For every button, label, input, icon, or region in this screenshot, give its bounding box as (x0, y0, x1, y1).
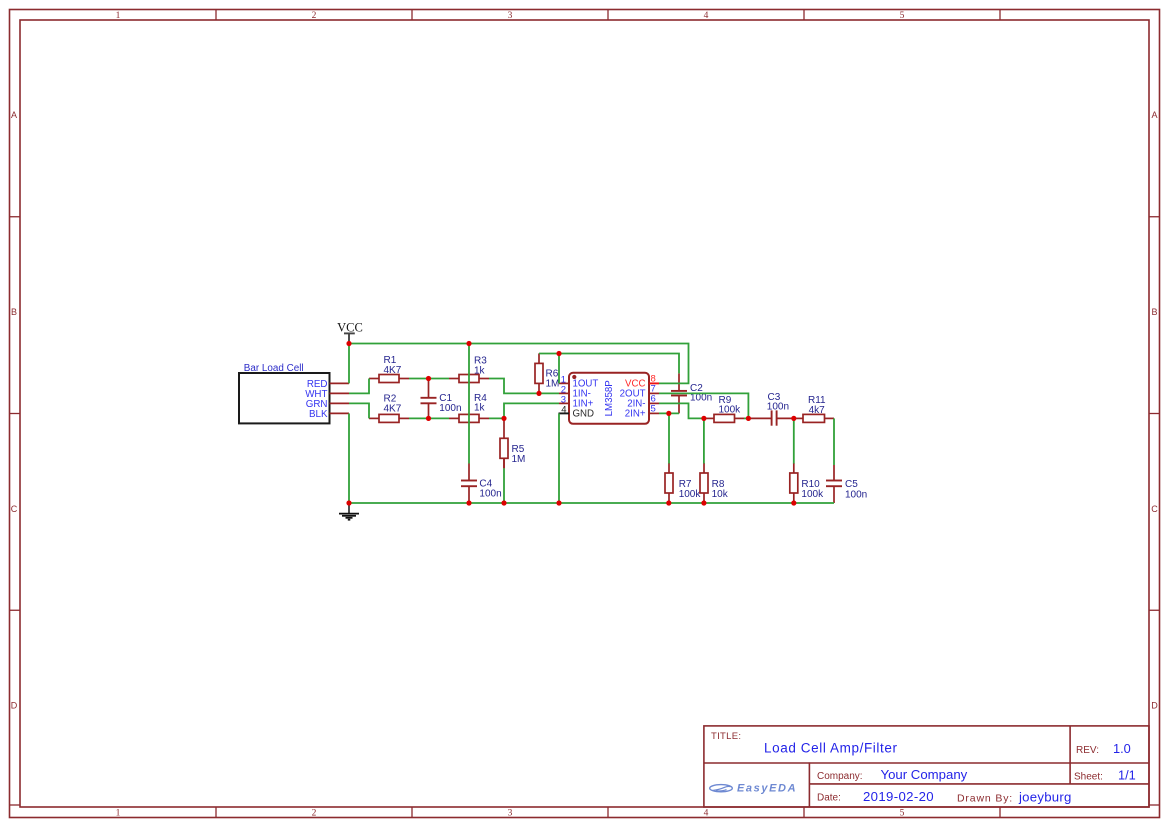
svg-text:100k: 100k (801, 489, 824, 500)
junction J17 (701, 500, 706, 505)
wire WHT pin to R1 (349, 379, 369, 394)
svg-text:1: 1 (116, 11, 121, 21)
svg-text:100k: 100k (679, 489, 702, 500)
wire VCC branch to C4 (468, 344, 470, 464)
svg-text:4: 4 (704, 809, 709, 819)
resistor R6 1M (535, 353, 559, 393)
capacitor C4 100n (461, 464, 502, 504)
resistor R7 100k (665, 463, 701, 503)
svg-text:1/1: 1/1 (1118, 767, 1136, 782)
junction J6 (536, 391, 541, 396)
resistor R11 4k7 (794, 395, 834, 422)
wire 1OUT net to R6/C2 (539, 354, 679, 374)
wire R8 top branch (703, 418, 705, 463)
wire R2 to C1 to R4 (409, 417, 449, 419)
svg-text:100n: 100n (479, 489, 501, 500)
junction J12 (346, 500, 351, 505)
svg-text:B: B (1151, 307, 1157, 317)
svg-text:GND: GND (573, 408, 595, 419)
svg-text:Sheet:: Sheet: (1074, 772, 1103, 783)
svg-text:A: A (11, 110, 17, 120)
wire RED pin to VCC rail (348, 344, 350, 384)
svg-text:VCC: VCC (337, 321, 363, 335)
svg-text:1.0: 1.0 (1113, 741, 1131, 756)
wire ground rail (349, 502, 834, 504)
pin 8 VCC stub (649, 382, 659, 384)
junction J10 (746, 416, 751, 421)
svg-text:EasyEDA: EasyEDA (737, 783, 797, 795)
resistor R10 100k (790, 463, 824, 503)
svg-text:1: 1 (116, 809, 121, 819)
junction J2 (466, 341, 471, 346)
svg-text:D: D (11, 701, 18, 711)
svg-text:Load Cell Amp/Filter: Load Cell Amp/Filter (764, 741, 898, 756)
wire R3 to pin 2 (489, 379, 559, 394)
resistor R8 10k (700, 463, 729, 503)
wire VCC top rail to pin 8 (349, 344, 689, 384)
svg-text:3: 3 (508, 11, 513, 21)
wire 1OUT branch to pin 1 (558, 354, 560, 384)
svg-text:10k: 10k (712, 489, 729, 500)
junction J3 (426, 376, 431, 381)
svg-text:5: 5 (651, 404, 656, 415)
svg-text:4: 4 (704, 11, 709, 21)
svg-text:Bar Load Cell: Bar Load Cell (244, 363, 304, 374)
resistor R9 100k (704, 395, 748, 423)
svg-text:C: C (1151, 504, 1158, 514)
resistor R3 1k (449, 356, 489, 383)
svg-text:2: 2 (312, 11, 317, 21)
svg-text:BLK: BLK (309, 409, 328, 420)
wire R5 to ground rail (503, 468, 505, 503)
wire pin 7 2OUT to R9 (659, 393, 748, 418)
svg-text:2IN+: 2IN+ (625, 408, 646, 419)
capacitor C5 100n (826, 465, 867, 503)
svg-text:TITLE:: TITLE: (711, 731, 741, 742)
wire R11 to C5 (833, 418, 835, 465)
junction J14 (501, 500, 506, 505)
junction J9 (701, 416, 706, 421)
svg-text:4k7: 4k7 (809, 405, 826, 416)
VCC power symbol (337, 321, 363, 344)
svg-text:joeyburg: joeyburg (1018, 790, 1072, 805)
wire R1 to C1 to R3 (409, 378, 449, 380)
junction J16 (666, 500, 671, 505)
junction J5 (501, 416, 506, 421)
svg-text:100k: 100k (719, 405, 742, 416)
junction J18 (791, 500, 796, 505)
resistor R4 1k (449, 393, 489, 422)
capacitor C3 100n (748, 392, 793, 426)
resistor R1 4K7 (369, 355, 409, 383)
svg-text:Drawn By:: Drawn By: (957, 792, 1013, 804)
junction J4 (426, 416, 431, 421)
ground symbol (339, 503, 359, 520)
svg-text:1M: 1M (512, 454, 526, 465)
op-amp U1 LM358P (559, 373, 660, 424)
svg-text:4: 4 (561, 404, 566, 415)
junction J13 (466, 500, 471, 505)
svg-text:1k: 1k (474, 403, 486, 414)
capacitor C2 100n (671, 373, 712, 413)
wire pin 5 to C2/R7 (659, 412, 679, 414)
junction J1 (346, 341, 351, 346)
svg-text:REV:: REV: (1076, 745, 1099, 756)
svg-text:D: D (1151, 701, 1158, 711)
svg-text:4K7: 4K7 (384, 365, 402, 376)
svg-text:100n: 100n (845, 489, 867, 500)
svg-text:B: B (11, 307, 17, 317)
wire R4/R5 to pin 3 (489, 403, 559, 418)
svg-text:3: 3 (508, 809, 513, 819)
svg-text:100n: 100n (439, 403, 461, 414)
junction J15 (556, 500, 561, 505)
pin 4 GND stub (559, 412, 570, 414)
wire pin 4 GND to rail (558, 413, 560, 503)
junction J7 (556, 351, 561, 356)
svg-text:1k: 1k (474, 366, 486, 377)
svg-text:100n: 100n (767, 402, 789, 413)
title block (704, 726, 1149, 807)
svg-text:4K7: 4K7 (384, 403, 402, 414)
wire R7 branch (668, 413, 670, 463)
junction J8 (666, 411, 671, 416)
wire BLK pin to ground (348, 413, 350, 503)
svg-text:LM358P: LM358P (604, 380, 615, 416)
wire GRN pin to R2 (349, 403, 369, 418)
svg-text:Company:: Company: (817, 771, 863, 782)
svg-text:2019-02-20: 2019-02-20 (863, 789, 934, 804)
svg-text:2: 2 (312, 809, 317, 819)
junction J11 (791, 416, 796, 421)
svg-text:1M: 1M (546, 378, 560, 389)
svg-text:A: A (1151, 110, 1157, 120)
capacitor C1 100n (421, 379, 462, 419)
resistor R5 1M (500, 418, 525, 468)
resistor R2 4K7 (369, 393, 409, 422)
svg-text:5: 5 (900, 11, 905, 21)
wire pin 6 to R8/R9 node (659, 403, 704, 418)
svg-text:C: C (11, 504, 18, 514)
svg-text:5: 5 (900, 809, 905, 819)
wire R10 branch (793, 418, 795, 463)
svg-text:Your Company: Your Company (881, 767, 968, 782)
svg-text:Date:: Date: (817, 792, 841, 803)
svg-text:100n: 100n (690, 393, 712, 404)
load cell module P1 "Bar Load Cell" (239, 363, 349, 424)
